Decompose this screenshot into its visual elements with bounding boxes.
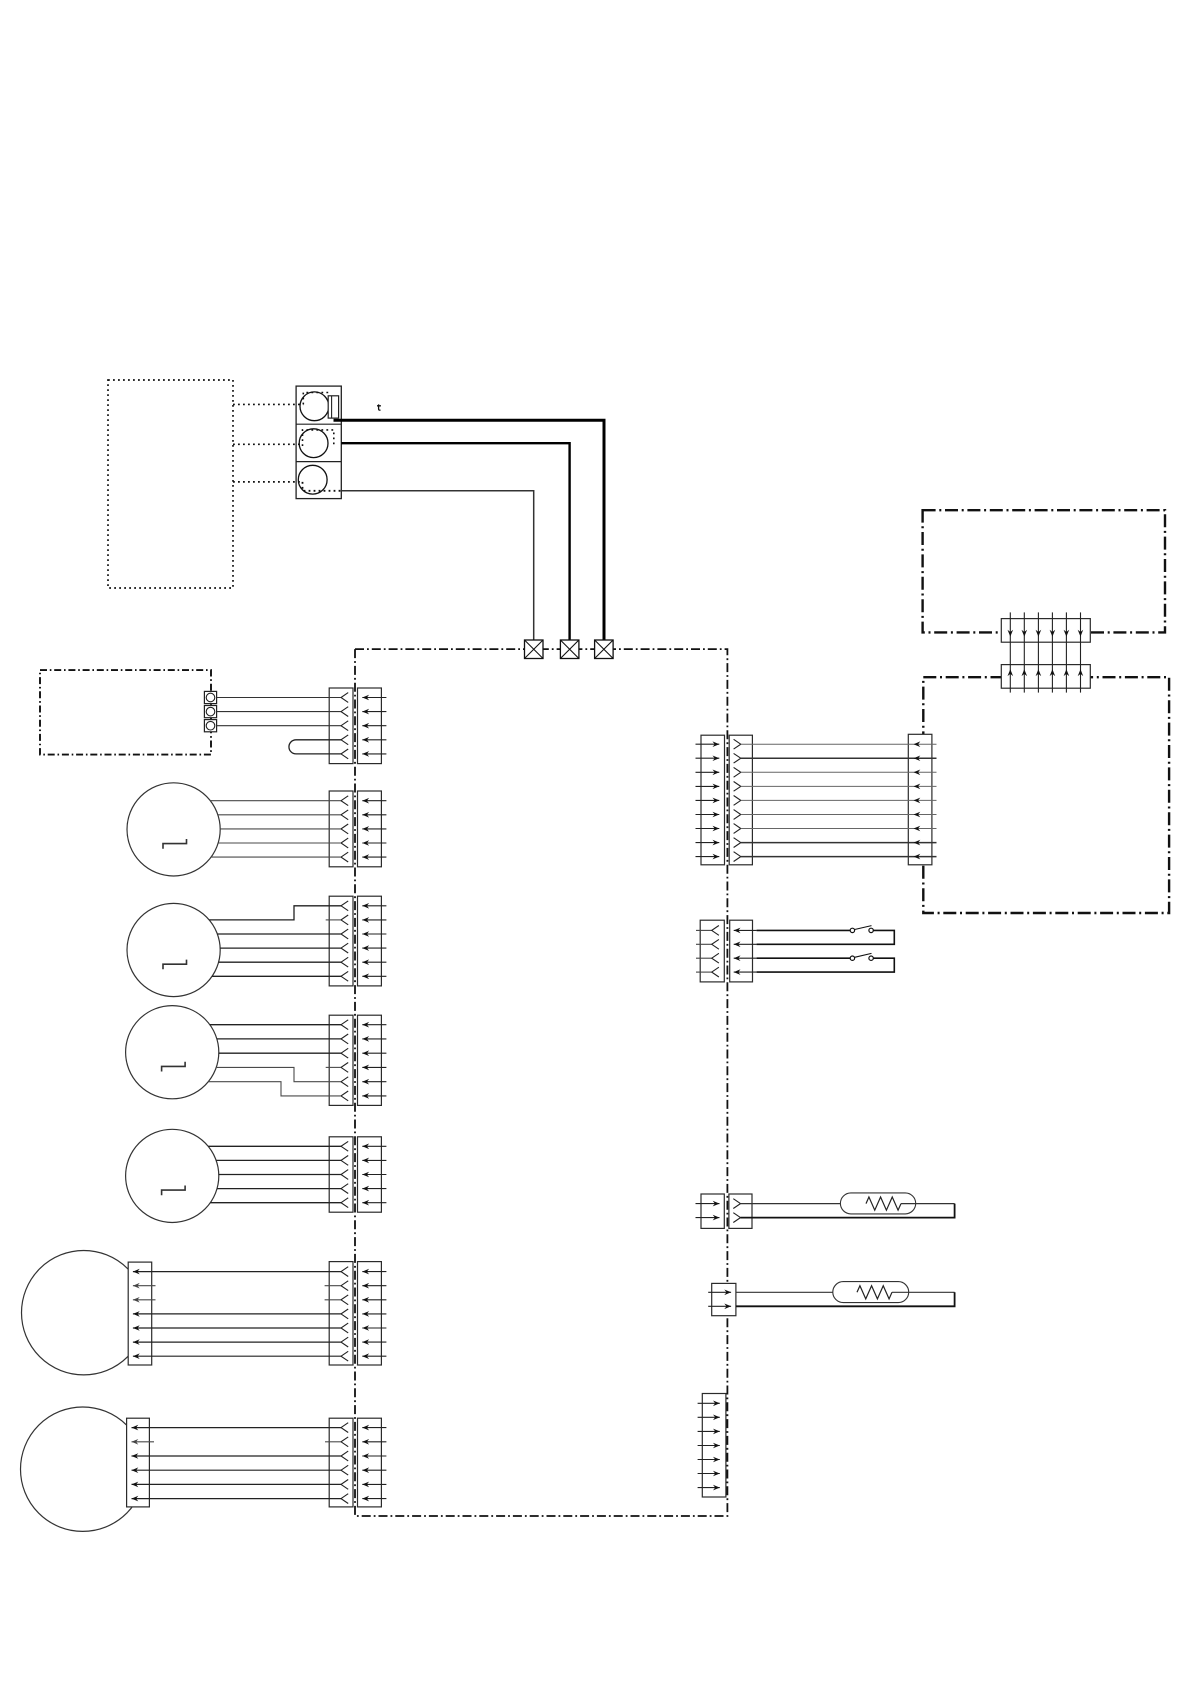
wire CN2-2 (218, 814, 341, 816)
wire CN7-3 (132, 1453, 342, 1459)
wire CN8-5 to CN9 (741, 798, 937, 804)
fuse holder on bulb 1 (328, 396, 338, 418)
stub CN6-3 (133, 1297, 341, 1303)
connector pair CN11 (fuse 1) (701, 1194, 752, 1228)
connector pair CN8 (harness right) (701, 735, 752, 865)
fuse F2 (capsule with element) (736, 1282, 955, 1307)
stub CN7-2 (132, 1439, 342, 1445)
left control unit boundary (dash-dot box) (40, 670, 211, 755)
wire CN3-4 (220, 947, 341, 949)
wire CN7-5 (132, 1482, 342, 1488)
connector X2 (crossed square) (560, 640, 579, 659)
wire CN6-7 (133, 1353, 341, 1359)
stub CN3-2 (326, 919, 341, 921)
wire CN3-1 (stepped) (209, 906, 341, 920)
wire CN5-2 (216, 1159, 341, 1161)
wire CN7-1 (132, 1425, 342, 1431)
wire CN1-3 (217, 725, 341, 727)
connector CN15 (to right-middle unit) (1001, 665, 1090, 689)
wire CN7-6 (132, 1496, 342, 1502)
connector X1 (crossed square) (525, 640, 544, 659)
wire CN1-1 (217, 697, 341, 699)
wire CN8-8 to CN9 (741, 840, 937, 846)
wire CN5-4 (217, 1188, 341, 1190)
tiny label mark (377, 404, 381, 410)
wire CN1-2 (217, 711, 341, 713)
connector pair CN3 (329, 896, 386, 986)
right-middle unit boundary (dash-dot box) (923, 677, 1169, 913)
lamp L3 (126, 1006, 219, 1099)
wire bulb1 to connector X3 (334, 420, 605, 640)
wire CN5-1 (208, 1145, 341, 1147)
connector pair CN10 (switches) (700, 920, 752, 982)
wire CN4-5 (stepped) (216, 1067, 341, 1081)
wire bulb3 to connector X1 (341, 491, 533, 640)
connector CN14 (to top-right unit) (1001, 619, 1090, 643)
motor M1 (21, 1251, 145, 1375)
CN12 pins (708, 1290, 731, 1310)
switch SW2 (757, 953, 895, 972)
wire CN8-2 to CN9 (741, 756, 937, 762)
connector pair CN2 (329, 791, 386, 867)
switch SW1 (757, 926, 895, 945)
wire CN8-4 to CN9 (741, 784, 937, 790)
wire CN8-7 to CN9 (741, 826, 937, 832)
connector pair CN1 (control unit to harness) (329, 688, 386, 764)
wire CN2-5 (211, 856, 341, 858)
wire CN4-3 (219, 1052, 341, 1054)
CN8 pins (696, 739, 741, 861)
headlamp housing (dotted box) (108, 380, 233, 588)
lamp L1 (127, 783, 220, 876)
wire CN4-1 (210, 1024, 341, 1026)
terminal block on control unit (204, 691, 216, 731)
stub CN4-4 (326, 1066, 341, 1068)
CN11 pins (696, 1199, 741, 1223)
connector CN12 (fuse 2) (712, 1283, 736, 1315)
bulb 3 (298, 465, 327, 494)
wire CN3-6 (212, 975, 341, 977)
wire CN4-2 (217, 1038, 341, 1040)
wire CN7-4 (132, 1467, 342, 1473)
motor M2 (20, 1407, 144, 1531)
main wiring-harness boundary (dash-dot box) (355, 649, 727, 1516)
wire CN6-4 (133, 1311, 341, 1317)
wire CN8-9 to CN9 (741, 854, 937, 860)
wire CN6-1 (133, 1269, 341, 1275)
wire CN8-6 to CN9 (741, 812, 937, 818)
lamp L4 (126, 1129, 219, 1222)
CN10 pins (696, 926, 757, 978)
wire CN2-1 (210, 800, 341, 802)
wire CN4-6 (stepped) (208, 1082, 341, 1096)
wire CN2-3 (220, 828, 341, 830)
dotted lead to bulb 1 (233, 393, 330, 405)
wire CN3-3 (217, 933, 341, 935)
connector CN9 (right unit, 9 pin) (908, 734, 932, 865)
jumper loop CN1 pins 4-5 (289, 740, 341, 754)
connector on motor M2 (127, 1418, 150, 1507)
CN13 pins (698, 1401, 720, 1491)
wire CN5-5 (210, 1202, 341, 1204)
fuse F1 (capsule with element) (741, 1193, 955, 1218)
connector pair CN5 (329, 1137, 386, 1212)
wire bulb2 to connector X2 (341, 443, 569, 640)
wire CN3-5 (219, 961, 341, 963)
wire CN2-4 (218, 842, 341, 844)
lamp L2 (127, 903, 220, 996)
CN14-CN15 wires (1008, 612, 1084, 692)
connector CN13 (7 pin) (702, 1394, 726, 1498)
dotted lead to bulb 2 (233, 430, 334, 446)
wire CN6-5 (133, 1325, 341, 1331)
top-right unit boundary (dash-dot box) (923, 510, 1165, 632)
dotted lead to bulb 3 (233, 482, 341, 491)
connector on motor M1 (128, 1262, 152, 1365)
wire CN8-3 to CN9 (741, 770, 937, 776)
connector pair CN7 (329, 1418, 386, 1507)
stub CN6-2 (133, 1283, 341, 1289)
bulb unit block (296, 386, 341, 499)
wire CN6-6 (133, 1339, 341, 1345)
bulb 2 (299, 429, 328, 458)
connector pair CN6 (329, 1262, 386, 1365)
bulb 1 (300, 392, 329, 421)
connector X3 (crossed square) (595, 640, 614, 659)
wire CN5-3 (219, 1174, 341, 1176)
connector pair CN4 (329, 1015, 386, 1105)
wire CN8-1 to CN9 (741, 741, 937, 747)
